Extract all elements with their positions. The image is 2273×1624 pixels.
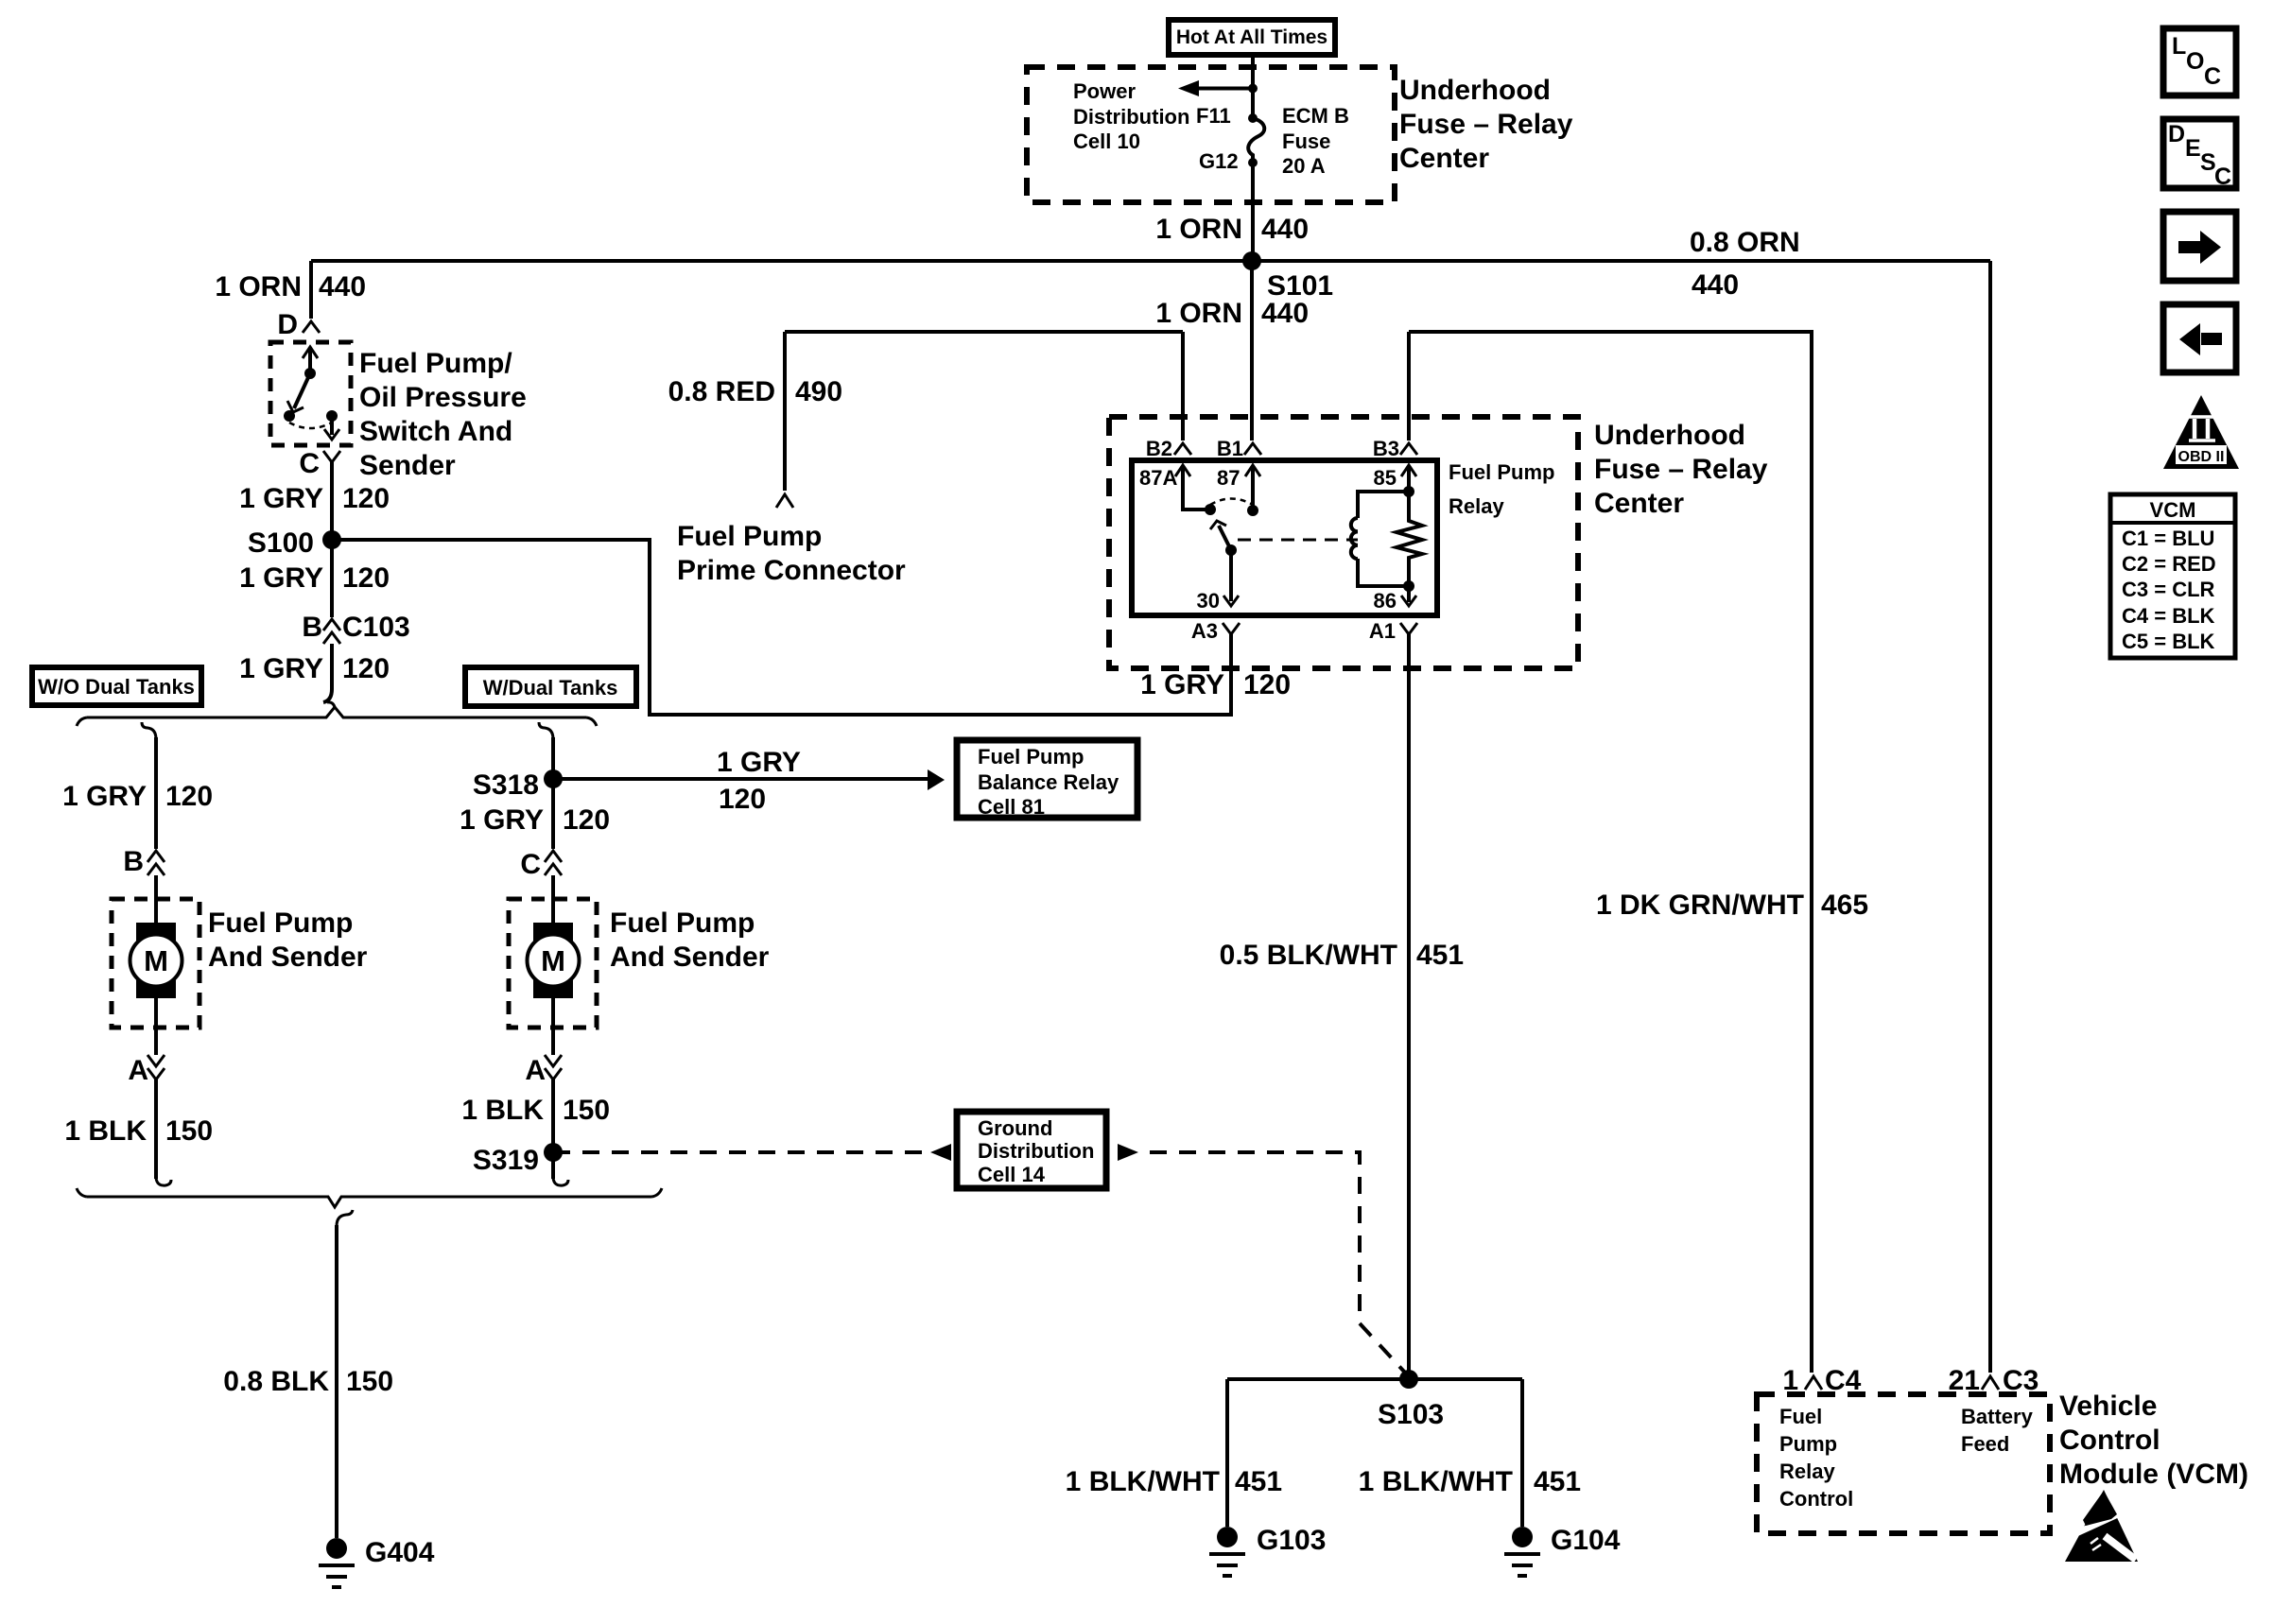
svg-text:F11: F11 bbox=[1196, 104, 1231, 128]
svg-text:C103: C103 bbox=[342, 612, 410, 643]
svg-text:120: 120 bbox=[342, 483, 390, 514]
svg-text:Fuel Pump: Fuel Pump bbox=[677, 521, 822, 552]
svg-text:And Sender: And Sender bbox=[610, 942, 770, 973]
svg-text:1 GRY: 1 GRY bbox=[1140, 669, 1224, 700]
svg-text:Distribution: Distribution bbox=[978, 1139, 1094, 1163]
svg-text:20 A: 20 A bbox=[1282, 154, 1326, 178]
svg-text:C: C bbox=[299, 448, 320, 479]
svg-text:0.8 ORN: 0.8 ORN bbox=[1690, 227, 1800, 258]
svg-text:M: M bbox=[541, 944, 565, 977]
svg-text:Center: Center bbox=[1594, 488, 1684, 519]
svg-text:S318: S318 bbox=[473, 769, 539, 801]
svg-text:A3: A3 bbox=[1191, 619, 1218, 643]
svg-text:150: 150 bbox=[346, 1366, 393, 1397]
svg-text:440: 440 bbox=[319, 271, 366, 302]
svg-text:Relay: Relay bbox=[1779, 1460, 1835, 1483]
svg-text:B3: B3 bbox=[1373, 437, 1399, 460]
svg-text:B: B bbox=[302, 612, 322, 643]
svg-text:1 DK GRN/WHT: 1 DK GRN/WHT bbox=[1596, 890, 1804, 921]
svg-text:451: 451 bbox=[1534, 1466, 1581, 1497]
svg-text:Power: Power bbox=[1073, 79, 1136, 103]
svg-text:451: 451 bbox=[1416, 940, 1464, 971]
svg-text:Switch And: Switch And bbox=[359, 416, 512, 447]
svg-text:And Sender: And Sender bbox=[208, 942, 368, 973]
svg-text:Cell 10: Cell 10 bbox=[1073, 130, 1140, 153]
svg-text:150: 150 bbox=[563, 1095, 610, 1126]
svg-text:Fuel Pump: Fuel Pump bbox=[610, 907, 755, 939]
svg-text:120: 120 bbox=[165, 781, 213, 812]
svg-text:Distribution: Distribution bbox=[1073, 105, 1189, 129]
svg-text:Fuse – Relay: Fuse – Relay bbox=[1399, 109, 1573, 140]
svg-text:1 GRY: 1 GRY bbox=[460, 804, 544, 836]
svg-text:86: 86 bbox=[1374, 589, 1397, 613]
svg-text:C: C bbox=[2204, 63, 2221, 90]
svg-text:ECM B: ECM B bbox=[1282, 104, 1349, 128]
svg-text:120: 120 bbox=[563, 804, 610, 836]
svg-text:G104: G104 bbox=[1551, 1525, 1621, 1556]
svg-text:490: 490 bbox=[795, 376, 842, 407]
svg-text:451: 451 bbox=[1235, 1466, 1282, 1497]
svg-text:Cell 14: Cell 14 bbox=[978, 1163, 1046, 1186]
svg-text:Feed: Feed bbox=[1961, 1432, 2009, 1456]
svg-text:30: 30 bbox=[1197, 589, 1220, 613]
svg-text:150: 150 bbox=[165, 1115, 213, 1147]
svg-text:Pump: Pump bbox=[1779, 1432, 1837, 1456]
svg-text:Fuel Pump/: Fuel Pump/ bbox=[359, 348, 512, 379]
svg-text:1 BLK/WHT: 1 BLK/WHT bbox=[1066, 1466, 1220, 1497]
svg-text:465: 465 bbox=[1821, 890, 1868, 921]
svg-text:Module (VCM): Module (VCM) bbox=[2059, 1459, 2248, 1490]
svg-text:M: M bbox=[144, 944, 168, 977]
svg-text:1 GRY: 1 GRY bbox=[717, 747, 801, 778]
svg-text:C3 = CLR: C3 = CLR bbox=[2122, 578, 2215, 601]
svg-text:1 GRY: 1 GRY bbox=[239, 653, 323, 684]
svg-text:Oil Pressure: Oil Pressure bbox=[359, 382, 527, 413]
svg-text:Center: Center bbox=[1399, 143, 1489, 174]
svg-text:120: 120 bbox=[1243, 669, 1291, 700]
svg-text:B: B bbox=[123, 846, 144, 877]
svg-text:C5 = BLK: C5 = BLK bbox=[2122, 630, 2215, 653]
svg-text:0.5 BLK/WHT: 0.5 BLK/WHT bbox=[1220, 940, 1397, 971]
svg-text:G404: G404 bbox=[365, 1537, 435, 1568]
svg-text:Underhood: Underhood bbox=[1594, 420, 1745, 451]
svg-text:Ground: Ground bbox=[978, 1116, 1052, 1140]
svg-text:C: C bbox=[520, 849, 541, 880]
svg-text:D: D bbox=[2168, 121, 2185, 147]
svg-text:120: 120 bbox=[719, 784, 766, 815]
svg-text:B1: B1 bbox=[1217, 437, 1243, 460]
svg-text:Sender: Sender bbox=[359, 450, 456, 481]
svg-text:Cell 81: Cell 81 bbox=[978, 795, 1045, 819]
svg-text:A: A bbox=[525, 1055, 546, 1086]
svg-text:1 BLK: 1 BLK bbox=[461, 1095, 544, 1126]
svg-text:Underhood: Underhood bbox=[1399, 75, 1551, 106]
svg-text:440: 440 bbox=[1261, 298, 1309, 329]
svg-text:C2 = RED: C2 = RED bbox=[2122, 552, 2216, 576]
svg-text:D: D bbox=[277, 309, 298, 340]
svg-text:Battery: Battery bbox=[1961, 1405, 2034, 1428]
svg-text:120: 120 bbox=[342, 562, 390, 594]
svg-text:C: C bbox=[2214, 164, 2231, 190]
svg-text:B2: B2 bbox=[1146, 437, 1172, 460]
svg-text:1 GRY: 1 GRY bbox=[62, 781, 147, 812]
svg-text:1 BLK: 1 BLK bbox=[64, 1115, 147, 1147]
svg-text:87: 87 bbox=[1217, 466, 1240, 490]
svg-text:87A: 87A bbox=[1139, 466, 1177, 490]
svg-text:OBD II: OBD II bbox=[2178, 449, 2225, 465]
svg-text:1 ORN: 1 ORN bbox=[215, 271, 302, 302]
svg-text:W/Dual Tanks: W/Dual Tanks bbox=[483, 676, 618, 700]
svg-text:E: E bbox=[2185, 135, 2201, 162]
svg-text:VCM: VCM bbox=[2150, 498, 2196, 522]
svg-text:S100: S100 bbox=[248, 527, 314, 559]
svg-text:L: L bbox=[2172, 33, 2186, 60]
svg-text:Vehicle: Vehicle bbox=[2059, 1391, 2157, 1422]
svg-text:Fuel: Fuel bbox=[1779, 1405, 1822, 1428]
svg-text:440: 440 bbox=[1692, 269, 1739, 301]
svg-text:440: 440 bbox=[1261, 214, 1309, 245]
svg-text:1 BLK/WHT: 1 BLK/WHT bbox=[1359, 1466, 1513, 1497]
svg-text:Balance Relay: Balance Relay bbox=[978, 770, 1119, 794]
svg-text:Prime Connector: Prime Connector bbox=[677, 555, 906, 586]
svg-text:1 GRY: 1 GRY bbox=[239, 562, 323, 594]
svg-text:G12: G12 bbox=[1199, 149, 1239, 173]
svg-text:0.8 RED: 0.8 RED bbox=[668, 376, 775, 407]
svg-text:Fuse: Fuse bbox=[1282, 130, 1330, 153]
svg-text:S319: S319 bbox=[473, 1145, 539, 1176]
svg-text:120: 120 bbox=[342, 653, 390, 684]
svg-text:Fuel Pump: Fuel Pump bbox=[1449, 460, 1554, 484]
svg-text:Fuse – Relay: Fuse – Relay bbox=[1594, 454, 1768, 485]
svg-text:W/O Dual Tanks: W/O Dual Tanks bbox=[38, 675, 195, 699]
svg-text:Control: Control bbox=[1779, 1487, 1853, 1511]
svg-text:C4 = BLK: C4 = BLK bbox=[2122, 604, 2215, 628]
svg-text:1 GRY: 1 GRY bbox=[239, 483, 323, 514]
svg-text:A: A bbox=[128, 1055, 148, 1086]
svg-text:0.8 BLK: 0.8 BLK bbox=[223, 1366, 329, 1397]
svg-text:Hot At All Times: Hot At All Times bbox=[1176, 26, 1327, 48]
svg-text:1 ORN: 1 ORN bbox=[1155, 214, 1242, 245]
svg-text:S103: S103 bbox=[1378, 1399, 1444, 1430]
svg-text:Relay: Relay bbox=[1449, 494, 1504, 518]
svg-text:Fuel Pump: Fuel Pump bbox=[208, 907, 353, 939]
svg-text:C1 = BLU: C1 = BLU bbox=[2122, 527, 2214, 550]
svg-text:1 ORN: 1 ORN bbox=[1155, 298, 1242, 329]
svg-text:Control: Control bbox=[2059, 1425, 2160, 1456]
svg-text:A1: A1 bbox=[1369, 619, 1396, 643]
svg-text:G103: G103 bbox=[1257, 1525, 1326, 1556]
svg-text:O: O bbox=[2186, 48, 2204, 75]
svg-text:85: 85 bbox=[1374, 466, 1397, 490]
svg-text:Fuel Pump: Fuel Pump bbox=[978, 745, 1084, 769]
